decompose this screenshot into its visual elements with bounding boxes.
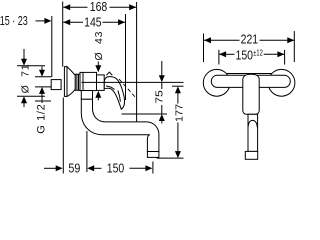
ext line wall face (168/145 left ref) (62, 2, 64, 67)
body cylinder (80, 72, 97, 90)
ext line 75 bottom (handle tip level) (122, 113, 168, 115)
svg-text:150: 150 (107, 162, 125, 176)
ext lines 150+-12 (218, 50, 220, 65)
rear bar top edge between escutcheons (227, 73, 272, 75)
dim Ø71 (17, 49, 45, 107)
handle lever (104, 77, 124, 110)
ext line 177 top (172, 85, 184, 87)
dim G1/2 (union neck) (35, 67, 52, 104)
ext line 75 top / body axis (crosses handle) (82, 81, 184, 83)
aerator (147, 152, 159, 158)
svg-text:145: 145 (84, 15, 102, 29)
central body (243, 74, 259, 114)
svg-text:Ø 43: Ø 43 (93, 31, 105, 60)
svg-text:75: 75 (154, 90, 166, 104)
dim 168 (63, 4, 136, 10)
wall surface extension line (62, 98, 64, 174)
dim Ø43 (95, 62, 101, 101)
dim 150+-12 (219, 51, 284, 57)
svg-text:15 · 23: 15 · 23 (0, 14, 28, 28)
dim 75 (159, 61, 165, 124)
svg-text:59: 59 (68, 162, 80, 176)
front shapes (203, 69, 295, 159)
handle inner curve (118, 91, 121, 102)
ext lines 221 (203, 34, 205, 63)
svg-text:G 1/2: G 1/2 (36, 104, 48, 134)
front spout tube (248, 114, 258, 151)
body capsule (211, 75, 290, 87)
svg-text:168: 168 (90, 0, 108, 14)
ext line 15-23 left ref (51, 16, 53, 77)
ext line 177 bottom (aerator bottom) (157, 157, 184, 159)
front spout bump arc (248, 120, 257, 127)
front aerator (245, 151, 257, 159)
right escutcheon circle (268, 69, 295, 96)
dim 145 (63, 19, 125, 25)
handle knob cap (106, 72, 112, 75)
dim 221 (204, 37, 294, 43)
svg-text:±12: ±12 (253, 49, 263, 58)
escutcheon cone (67, 67, 75, 97)
svg-text:150: 150 (236, 48, 254, 62)
left escutcheon circle (203, 69, 230, 96)
ext line 168 right (136, 2, 138, 122)
square union G1/2 (51, 80, 61, 90)
cartridge block (97, 75, 105, 91)
ext line 145 right (crosses handle) (125, 14, 127, 100)
svg-text:Ø 71: Ø 71 (19, 64, 31, 93)
dim 59 / 150 bottom (44, 131, 153, 174)
spout tube + bend + horizontal run + end (81, 99, 159, 151)
dim 177 (175, 86, 181, 158)
svg-text:221: 221 (241, 33, 259, 47)
nut ring (75, 74, 80, 90)
svg-text:177: 177 (173, 104, 185, 122)
handle raised position (dashed) (119, 79, 136, 98)
escutcheon wall flange (64, 67, 67, 97)
dim 15-23 arrow (36, 18, 52, 24)
spout collar (81, 91, 92, 100)
